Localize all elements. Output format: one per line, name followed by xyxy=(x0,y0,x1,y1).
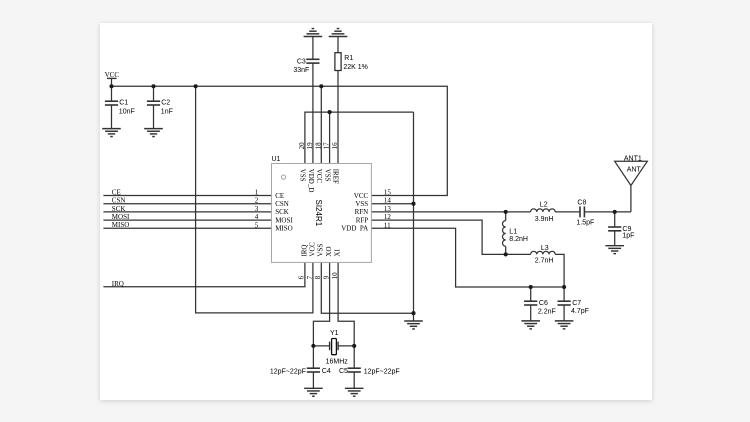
svg-text:RFP: RFP xyxy=(356,216,369,224)
svg-text:XI: XI xyxy=(334,249,342,257)
svg-text:CE: CE xyxy=(112,188,121,196)
svg-text:XO: XO xyxy=(325,246,333,256)
svg-text:3: 3 xyxy=(255,205,259,213)
svg-text:C2: C2 xyxy=(161,100,170,107)
svg-text:RFN: RFN xyxy=(355,208,369,216)
svg-text:8: 8 xyxy=(314,275,322,279)
svg-text:12pF~22pF: 12pF~22pF xyxy=(270,368,306,375)
svg-text:15: 15 xyxy=(384,189,392,197)
svg-text:R1: R1 xyxy=(344,55,353,62)
svg-text:MISO: MISO xyxy=(275,225,293,233)
svg-text:SCK: SCK xyxy=(275,208,289,216)
svg-text:ANT: ANT xyxy=(627,167,642,174)
svg-text:CSN: CSN xyxy=(275,200,289,208)
svg-text:2.2nF: 2.2nF xyxy=(538,309,556,316)
svg-text:19: 19 xyxy=(306,142,314,150)
svg-text:2.7nH: 2.7nH xyxy=(535,257,554,264)
svg-text:IRQ: IRQ xyxy=(300,245,308,257)
svg-text:C8: C8 xyxy=(577,200,586,207)
svg-text:C4: C4 xyxy=(322,368,331,375)
svg-text:1: 1 xyxy=(255,189,259,197)
svg-text:C6: C6 xyxy=(539,300,548,307)
svg-text:1nF: 1nF xyxy=(161,109,173,116)
svg-text:10: 10 xyxy=(331,272,339,280)
svg-text:IREF: IREF xyxy=(332,169,340,184)
svg-text:VCC: VCC xyxy=(315,169,323,184)
svg-text:L2: L2 xyxy=(540,201,548,208)
svg-text:18: 18 xyxy=(314,142,322,150)
svg-text:VSS: VSS xyxy=(317,244,325,257)
svg-text:12: 12 xyxy=(384,213,392,221)
svg-text:9: 9 xyxy=(322,275,330,279)
svg-text:11: 11 xyxy=(384,221,391,229)
svg-text:16MHz: 16MHz xyxy=(326,359,349,366)
svg-text:MOSI: MOSI xyxy=(275,216,293,224)
svg-text:L1: L1 xyxy=(509,228,517,235)
svg-text:2: 2 xyxy=(255,197,259,205)
svg-text:17: 17 xyxy=(323,142,331,150)
svg-text:C1: C1 xyxy=(119,100,128,107)
svg-text:L3: L3 xyxy=(541,245,549,252)
svg-text:VDD_D: VDD_D xyxy=(307,169,315,193)
svg-text:MISO: MISO xyxy=(112,221,130,229)
svg-text:SCK: SCK xyxy=(112,205,126,213)
svg-text:VDD PA: VDD PA xyxy=(341,225,368,233)
svg-text:13: 13 xyxy=(384,205,392,213)
svg-text:14: 14 xyxy=(384,197,392,205)
svg-text:Y1: Y1 xyxy=(330,330,339,337)
svg-text:IRQ: IRQ xyxy=(112,280,124,288)
svg-text:VSS: VSS xyxy=(323,169,331,182)
svg-text:20: 20 xyxy=(298,142,306,150)
svg-text:VCC: VCC xyxy=(309,242,317,257)
svg-text:3.9nH: 3.9nH xyxy=(535,216,554,223)
svg-text:1pF: 1pF xyxy=(622,232,634,239)
svg-text:C5: C5 xyxy=(339,368,348,375)
svg-text:12pF~22pF: 12pF~22pF xyxy=(364,368,400,375)
svg-text:7: 7 xyxy=(306,275,314,279)
svg-text:8.2nH: 8.2nH xyxy=(509,236,528,243)
svg-text:4: 4 xyxy=(255,213,259,221)
svg-text:16: 16 xyxy=(331,142,339,150)
svg-text:5: 5 xyxy=(255,221,259,229)
svg-text:10nF: 10nF xyxy=(119,109,135,116)
svg-text:ANT1: ANT1 xyxy=(624,155,642,162)
svg-text:22K 1%: 22K 1% xyxy=(343,64,368,71)
svg-text:C7: C7 xyxy=(572,300,581,307)
svg-text:CSN: CSN xyxy=(112,197,126,205)
svg-text:VCC: VCC xyxy=(354,192,369,200)
svg-text:1.5pF: 1.5pF xyxy=(576,219,594,226)
svg-text:VCC: VCC xyxy=(105,71,120,79)
svg-text:6: 6 xyxy=(298,275,306,279)
svg-text:MOSI: MOSI xyxy=(112,213,130,221)
svg-text:C3: C3 xyxy=(297,59,306,66)
svg-text:CE: CE xyxy=(275,192,284,200)
svg-text:VSS: VSS xyxy=(299,169,307,182)
svg-text:VSS: VSS xyxy=(355,200,368,208)
svg-text:33nF: 33nF xyxy=(293,67,309,74)
svg-text:SI24R1: SI24R1 xyxy=(314,200,323,227)
svg-text:U1: U1 xyxy=(272,156,281,163)
svg-text:4.7pF: 4.7pF xyxy=(571,308,589,315)
